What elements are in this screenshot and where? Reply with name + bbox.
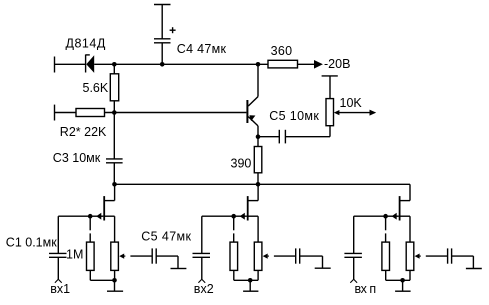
ground bar after C5 47мк [171, 268, 187, 270]
svg-text:390: 390 [231, 157, 252, 171]
JFET VT2 drain wire [105, 184, 115, 200]
ground bar block2 cap [315, 267, 331, 269]
common rail bar (10K top) [322, 76, 338, 99]
ground block1 [107, 280, 123, 291]
ground bar block3 cap [466, 268, 482, 270]
svg-text:вх2: вх2 [194, 282, 214, 296]
terminal вх2 [198, 279, 205, 283]
JFET VT2 gate arrow [90, 213, 103, 220]
node junction R2 / 5.6K / C3 [112, 110, 117, 115]
node gate 2 [231, 214, 236, 219]
svg-text:Д814Д: Д814Д [66, 37, 106, 51]
JFET VT3 drain wire [248, 184, 258, 200]
common rail bar (top) [154, 5, 171, 39]
bus wire [115, 184, 411, 200]
coupling capacitor block3 [448, 248, 474, 268]
capacitor C5 10мк [258, 130, 330, 144]
node junction top row / C4 [160, 62, 165, 67]
capacitor C1 0.1мк [49, 253, 67, 279]
wiper arrow of 10K [334, 110, 376, 116]
JFET VT4 drain wire [400, 200, 410, 202]
wire [55, 112, 77, 114]
wiper arrow block3 [415, 254, 448, 259]
svg-text:C1 0.1мк: C1 0.1мк [6, 236, 57, 250]
transistor VT1 (PNP) [247, 64, 258, 136]
node bottom 3 [400, 278, 405, 283]
terminal вх1 [55, 279, 62, 283]
wire bottom join 1 [90, 279, 114, 281]
node bottom 2 [248, 278, 253, 283]
svg-text:С3 10мк: С3 10мк [53, 151, 101, 165]
dashed link gate to resistor 2 [233, 216, 235, 242]
JFET VT4 source wire [400, 216, 410, 242]
node bus / 390 / block2 [256, 182, 261, 187]
resistor block2 left [230, 242, 238, 280]
resistor 1M [87, 242, 95, 280]
node gate 3 [383, 214, 388, 219]
resistor 390 [254, 137, 261, 185]
svg-text:вх п: вх п [355, 282, 376, 296]
node gate 1 [88, 214, 93, 219]
svg-text:C5 10мк: C5 10мк [269, 109, 319, 123]
svg-text:вх1: вх1 [50, 282, 70, 296]
wire [94, 63, 268, 65]
JFET VT3 channel [247, 196, 249, 220]
dashed link gate to 1M [89, 216, 91, 242]
arrow to -20V supply [314, 60, 323, 69]
wire gate to C1 [58, 216, 90, 253]
wire gate to input cap 2 [202, 216, 234, 253]
JFET VT3 source wire [248, 216, 258, 242]
capacitor C5 47мк [152, 248, 178, 268]
capacitor C4 47мк [154, 27, 176, 64]
svg-text:5.6K: 5.6K [83, 81, 109, 95]
wire base line [105, 112, 247, 114]
potentiometer 10K [326, 99, 334, 137]
potentiometer block1 [111, 242, 119, 280]
svg-text:C4 47мк: C4 47мк [177, 42, 227, 56]
node emitter junction [256, 134, 261, 139]
JFET VT2 source wire [105, 216, 115, 242]
node junction top row / 5.6K [112, 62, 117, 67]
resistor block3 left [382, 242, 390, 280]
input capacitor block3 [344, 253, 362, 279]
wire bottom join 3 [386, 279, 410, 281]
ground block2 [243, 280, 258, 291]
node junction top row / collector [256, 62, 261, 67]
zener diode Д814Д [86, 55, 95, 73]
wire [55, 63, 86, 65]
svg-text:1М: 1М [66, 247, 83, 261]
JFET VT4 channel [399, 196, 401, 220]
dashed link gate to resistor 3 [385, 216, 387, 242]
wiper arrow block1 [119, 254, 152, 259]
svg-text:R2* 22K: R2* 22K [60, 125, 107, 139]
terminal (R2 row left) [54, 105, 56, 121]
wire bottom join 2 [234, 279, 258, 281]
ground block3 [395, 280, 411, 291]
resistor 5.6K [110, 64, 118, 112]
potentiometer block3 [406, 242, 414, 280]
resistor R2* 22K [76, 109, 105, 117]
terminal (top-left input) [54, 57, 56, 73]
JFET VT2 channel [103, 196, 105, 220]
svg-text:-20В: -20В [324, 57, 350, 71]
svg-text:360: 360 [271, 44, 293, 58]
node bus / block1 [112, 182, 117, 187]
svg-text:10K: 10K [340, 96, 363, 110]
wiper arrow block2 [263, 254, 296, 259]
capacitor C3 10мк [106, 113, 123, 185]
svg-text:C5 47мк: C5 47мк [141, 230, 191, 244]
resistor 360 [268, 60, 314, 68]
coupling capacitor block2 [296, 248, 323, 268]
JFET VT4 gate arrow [386, 213, 399, 220]
potentiometer block2 [254, 242, 262, 280]
input capacitor block2 [193, 253, 211, 279]
terminal вх n [350, 279, 357, 283]
JFET VT3 gate arrow [234, 213, 247, 220]
node bottom 1 [112, 278, 117, 283]
wire gate to input cap 3 [354, 216, 386, 253]
